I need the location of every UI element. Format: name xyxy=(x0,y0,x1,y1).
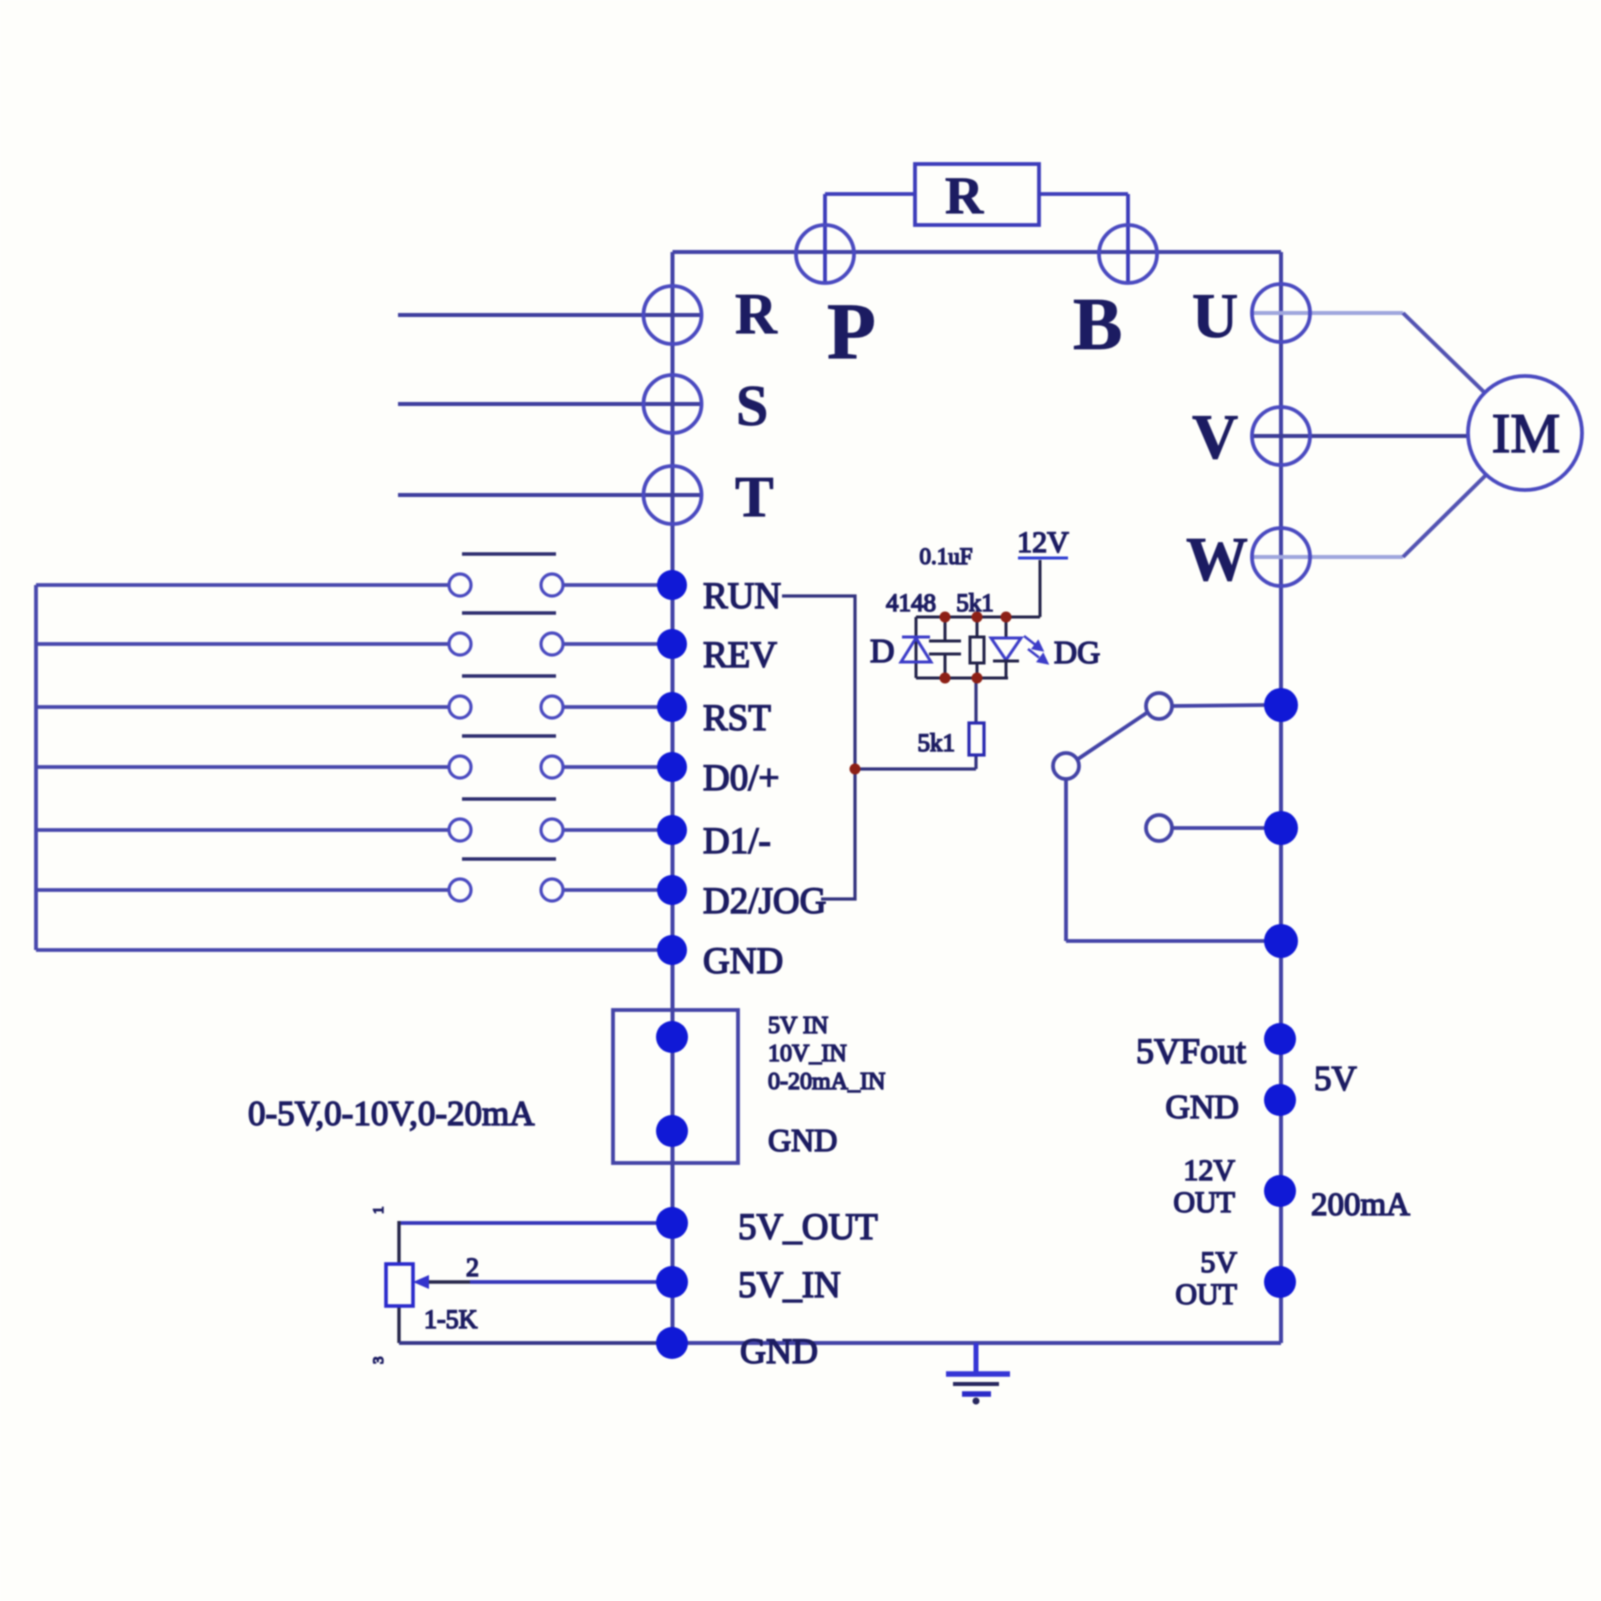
svg-text:U: U xyxy=(1192,280,1238,351)
svg-text:REV: REV xyxy=(703,635,777,676)
svg-text:12V: 12V xyxy=(1183,1154,1235,1187)
svg-text:0-5V,0-10V,0-20mA: 0-5V,0-10V,0-20mA xyxy=(248,1094,535,1133)
svg-text:P: P xyxy=(827,288,876,376)
svg-text:RST: RST xyxy=(703,698,771,739)
svg-text:5V: 5V xyxy=(1314,1059,1357,1098)
svg-text:D2/JOG: D2/JOG xyxy=(703,881,826,922)
svg-text:D0/+: D0/+ xyxy=(703,758,779,799)
svg-text:DG: DG xyxy=(1054,634,1100,670)
svg-text:2: 2 xyxy=(466,1253,479,1282)
svg-text:200mA: 200mA xyxy=(1311,1187,1410,1223)
svg-text:12V: 12V xyxy=(1017,526,1069,559)
svg-text:GND: GND xyxy=(703,941,783,982)
svg-text:S: S xyxy=(736,373,768,438)
svg-text:OUT: OUT xyxy=(1175,1278,1237,1311)
svg-text:V: V xyxy=(1192,401,1238,472)
svg-text:GND: GND xyxy=(1165,1089,1239,1126)
svg-text:1-5K: 1-5K xyxy=(424,1305,478,1334)
svg-text:5V IN: 5V IN xyxy=(768,1013,828,1039)
svg-text:10V_IN: 10V_IN xyxy=(768,1041,847,1067)
svg-text:1: 1 xyxy=(371,1207,387,1215)
svg-text:5k1: 5k1 xyxy=(956,590,994,617)
svg-text:5V_IN: 5V_IN xyxy=(738,1265,841,1306)
svg-text:0.1uF: 0.1uF xyxy=(919,544,972,569)
svg-text:GND: GND xyxy=(740,1331,818,1371)
svg-text:5VFout: 5VFout xyxy=(1136,1031,1246,1071)
svg-text:IM: IM xyxy=(1492,403,1560,465)
svg-text:5k1: 5k1 xyxy=(918,730,956,757)
svg-text:R: R xyxy=(945,167,984,225)
svg-text:4148: 4148 xyxy=(886,590,936,617)
svg-text:RUN: RUN xyxy=(703,576,781,617)
svg-text:OUT: OUT xyxy=(1173,1186,1235,1219)
svg-text:B: B xyxy=(1073,284,1122,366)
svg-text:GND: GND xyxy=(768,1122,837,1158)
svg-text:D: D xyxy=(870,633,895,670)
svg-text:5V_OUT: 5V_OUT xyxy=(738,1207,878,1248)
svg-text:5V: 5V xyxy=(1200,1246,1237,1279)
svg-text:R: R xyxy=(735,281,778,346)
svg-text:W: W xyxy=(1186,526,1248,594)
svg-text:T: T xyxy=(735,464,774,529)
svg-text:D1/-: D1/- xyxy=(703,821,771,862)
svg-text:3: 3 xyxy=(371,1357,387,1365)
svg-text:0-20mA_IN: 0-20mA_IN xyxy=(768,1069,885,1095)
